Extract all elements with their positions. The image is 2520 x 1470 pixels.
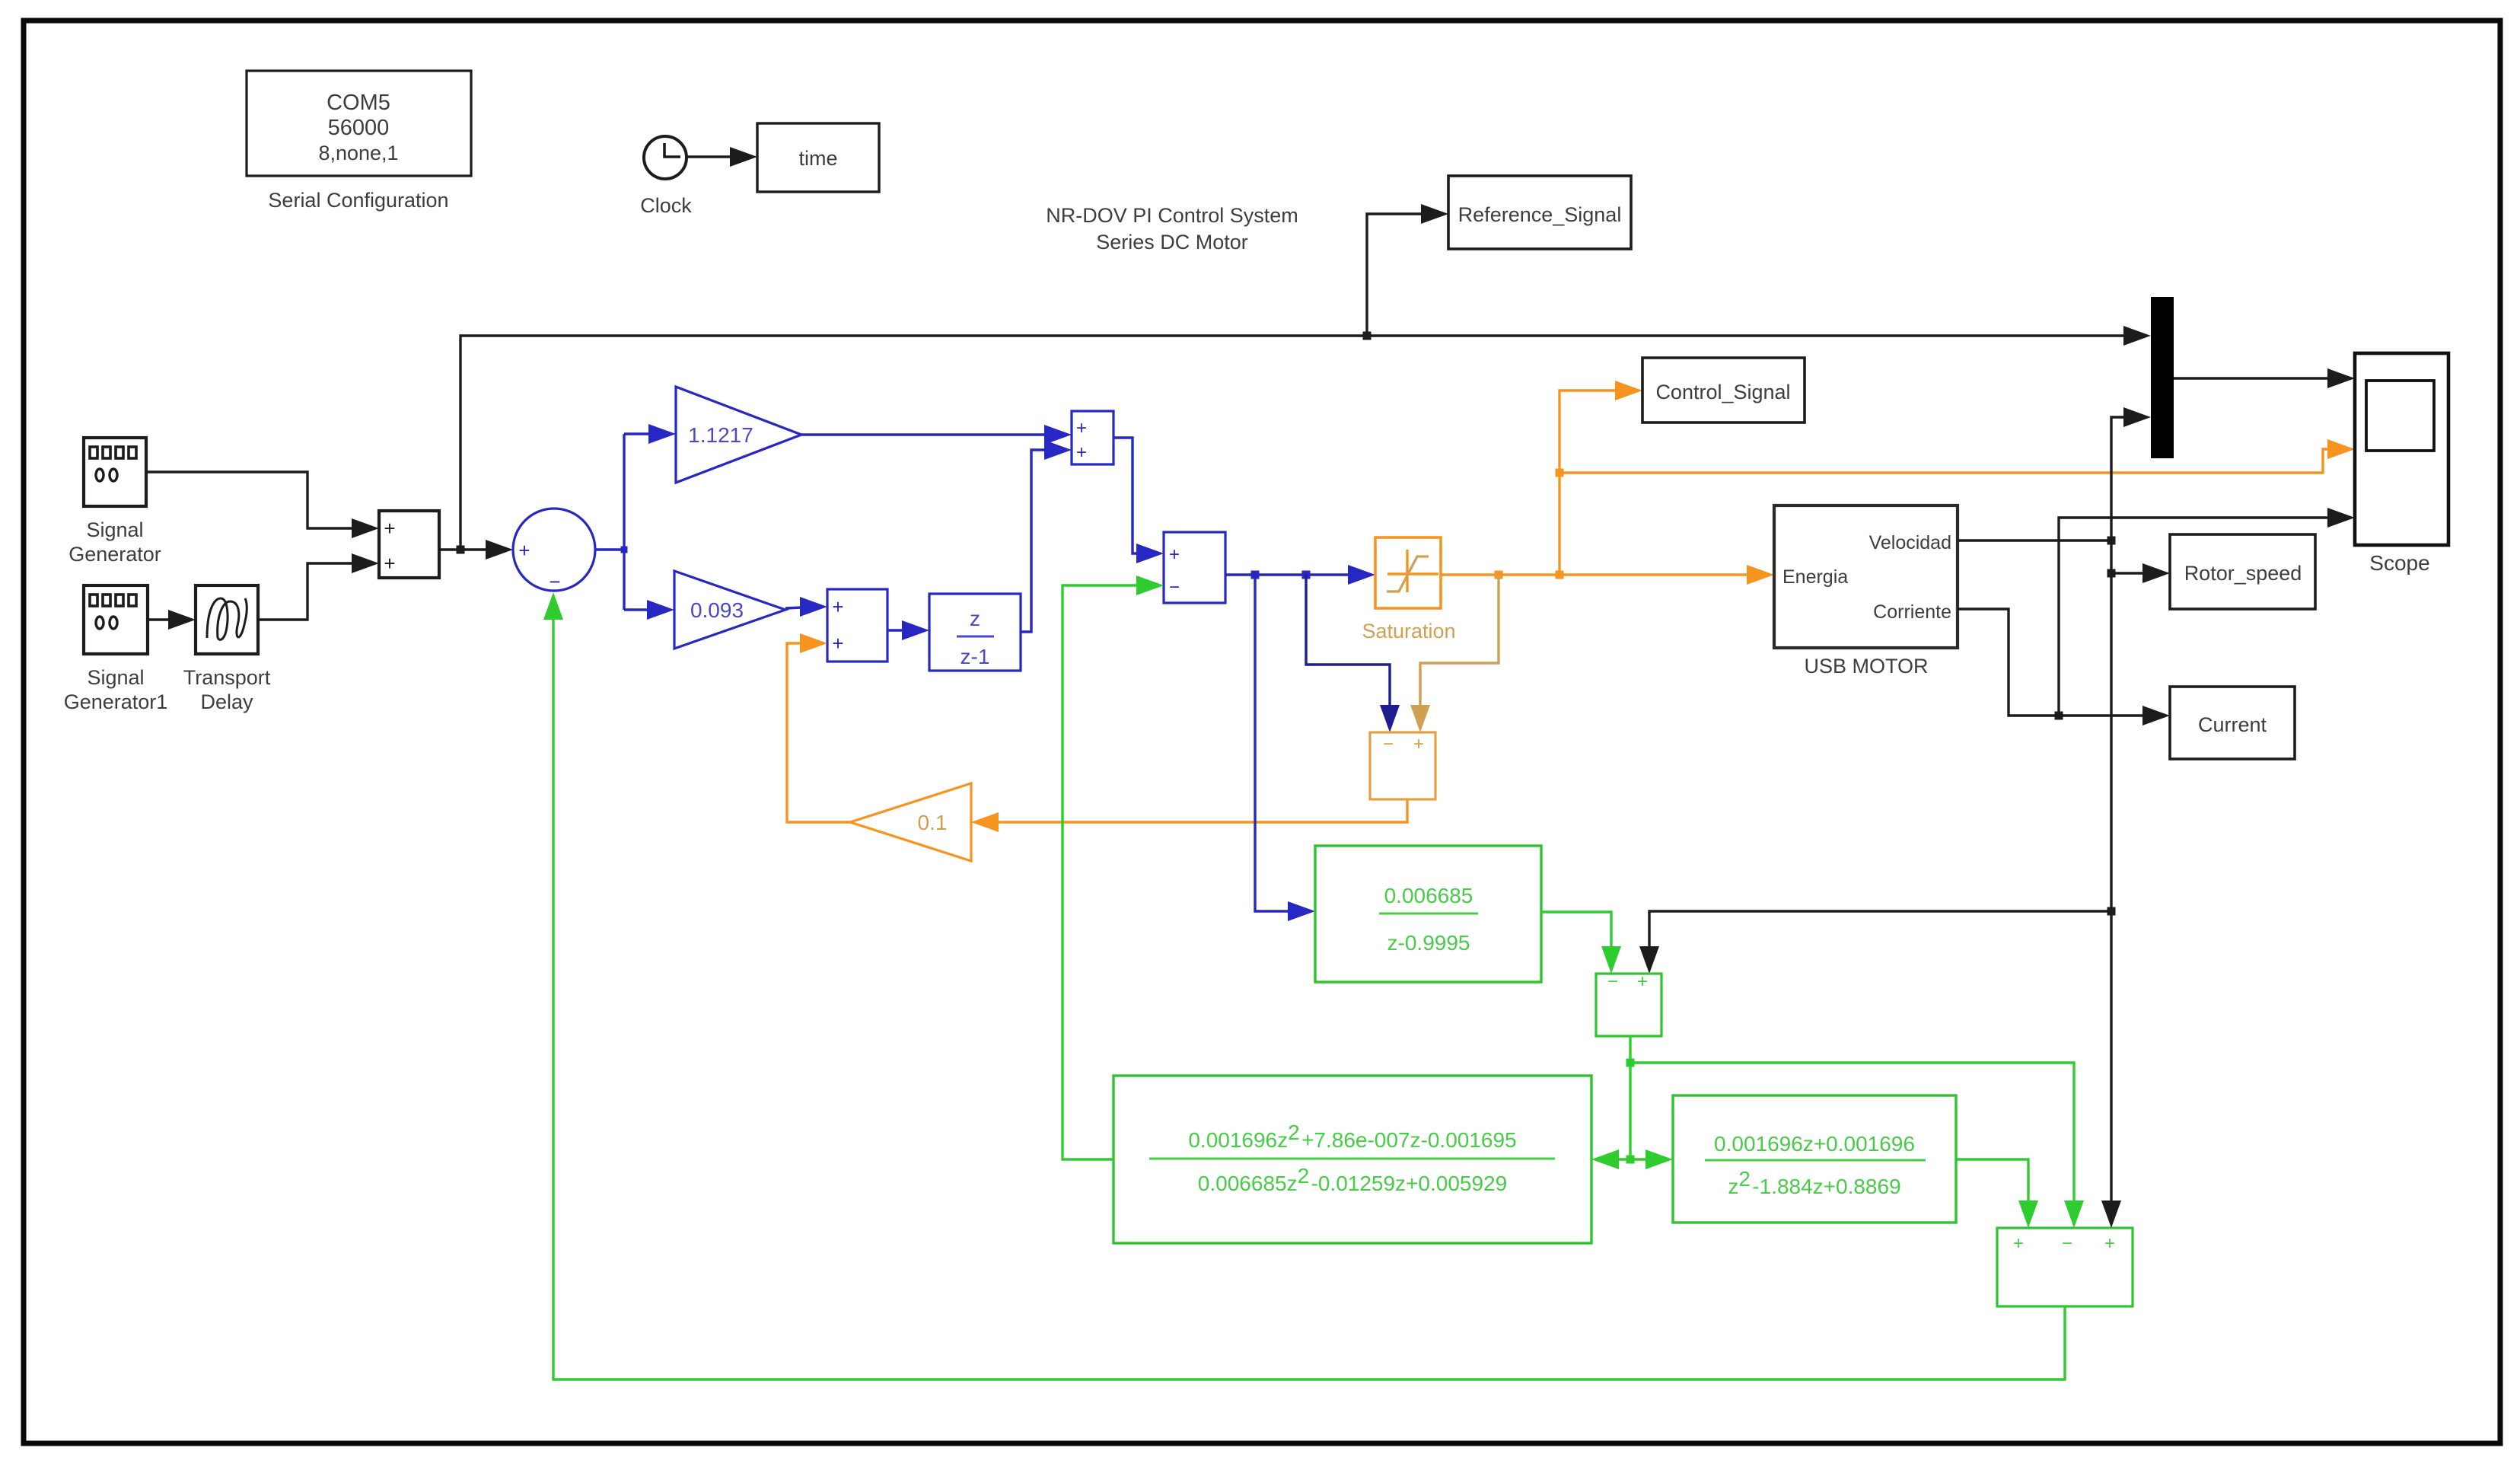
svg-text:Saturation: Saturation [1362, 620, 1455, 643]
wire bus vertical up to mux [2111, 407, 2151, 540]
svg-text:+: + [1076, 442, 1087, 463]
svg-text:Control_Signal: Control_Signal [1655, 381, 1790, 403]
svg-text:+: + [1169, 544, 1180, 565]
svg-text:z: z [970, 607, 980, 630]
wire mux to Scope input 1 [2174, 368, 2355, 388]
sum block S5 (+ -) [1164, 532, 1225, 603]
svg-text:Delay: Delay [200, 690, 253, 713]
svg-text:+: + [2104, 1233, 2115, 1254]
wire Clock to time [687, 147, 757, 167]
svg-text:Clock: Clock [640, 194, 692, 217]
block Signal Generator [68, 438, 161, 566]
sum block S1 (+ +) [379, 511, 439, 578]
wire S7 output to estimator blocks [1591, 1036, 2084, 1228]
sum block S7 (- +) [1596, 971, 1661, 1036]
sum block S8 (+ - +) [1997, 1228, 2133, 1306]
wire Signal Generator to sum [146, 472, 379, 538]
block Current goto [2170, 687, 2295, 759]
svg-text:−: − [1169, 577, 1180, 598]
svg-text:0.006685: 0.006685 [1384, 884, 1473, 907]
svg-text:+: + [1076, 418, 1087, 438]
block Rotor_speed goto [2170, 534, 2315, 609]
wire reference tap to Reference_Signal [1363, 204, 1449, 340]
svg-text:Signal: Signal [86, 518, 143, 541]
wire Signal Generator1 to Transport Delay [148, 610, 196, 630]
svg-text:Velocidad: Velocidad [1869, 532, 1951, 553]
wire reference signal main line to mux [460, 326, 2151, 550]
sum block S3 (+ +) [1072, 411, 1113, 464]
wire S6 to gain 0.1 [971, 799, 1407, 832]
svg-text:Energia: Energia [1782, 566, 1848, 588]
svg-text:Signal: Signal [87, 666, 144, 689]
svg-text:Series DC Motor: Series DC Motor [1096, 231, 1248, 254]
title text NR-DOV PI Control System [1046, 204, 1298, 254]
wire S5 output down to TF1 input [1255, 575, 1315, 921]
wire branch to Rotor_speed [2111, 563, 2170, 583]
wire S5 to Saturation with taps [1225, 565, 1375, 585]
svg-text:+: + [1637, 971, 1648, 992]
wire gain 1.1217 to sum S3 [801, 425, 1072, 445]
block Control_Signal goto [1642, 358, 1805, 423]
wire bus vertical down to S8 plus input [2101, 540, 2121, 1228]
svg-text:Current: Current [2198, 713, 2267, 736]
svg-text:+: + [384, 552, 395, 575]
wire TF2 output to S5 minus input [1062, 576, 1164, 1159]
wire velocidad feedback to S7 plus input [1639, 911, 2111, 974]
mux block [2151, 297, 2174, 458]
svg-text:−: − [549, 570, 560, 593]
sum circle S2 (+ -) [513, 509, 595, 593]
wire circle output split to gains [595, 424, 676, 620]
svg-text:+: + [1413, 734, 1424, 754]
svg-text:0.001696z+0.001696: 0.001696z+0.001696 [1714, 1132, 1915, 1156]
wire Saturation to Energia with taps [1441, 565, 1774, 585]
wire integrator to sum S3 [1021, 440, 1072, 632]
svg-text:NR-DOV PI Control System: NR-DOV PI Control System [1046, 204, 1298, 227]
svg-text:−: − [1607, 971, 1618, 992]
svg-text:Transport: Transport [183, 666, 271, 689]
svg-text:Generator: Generator [68, 543, 161, 566]
block TF1 0.006685/(z-0.9995) [1315, 846, 1541, 982]
block discrete integrator z/(z-1) [929, 594, 1021, 671]
block Scope [2355, 353, 2448, 575]
wire S8 output feedback to error circle [543, 592, 2065, 1379]
gain block 1.1217 [676, 387, 801, 483]
gain block 0.093 [674, 571, 785, 649]
svg-text:0.093: 0.093 [690, 598, 744, 622]
svg-text:Reference_Signal: Reference_Signal [1458, 203, 1622, 226]
block Serial Configuration [247, 71, 471, 212]
block Transport Delay [183, 585, 271, 713]
svg-text:time: time [798, 147, 837, 170]
wire gain 0.093 to sum S4 [785, 597, 827, 617]
svg-text:z-1: z-1 [961, 645, 990, 668]
block Reference_Signal goto [1448, 176, 1631, 249]
svg-text:1.1217: 1.1217 [688, 423, 753, 447]
wire control signal to Scope input 2 [1559, 439, 2355, 473]
gain block 0.1 (flipped) [850, 783, 971, 861]
wire TF1 to S7 minus input [1541, 912, 1621, 974]
block USB MOTOR subsystem [1774, 505, 1958, 678]
wire TF3 to S8 plus input [1956, 1159, 2038, 1228]
svg-text:+: + [832, 632, 843, 655]
svg-text:0.1: 0.1 [918, 811, 948, 834]
svg-text:Scope: Scope [2369, 551, 2429, 575]
block Signal Generator1 [64, 585, 168, 713]
wire S1 to error sum circle [439, 540, 513, 560]
block Clock [640, 136, 692, 217]
svg-text:8,none,1: 8,none,1 [318, 142, 398, 164]
svg-text:z-0.9995: z-0.9995 [1387, 931, 1470, 955]
sum block S6 (- +) [1370, 732, 1435, 799]
wire gain 0.1 to S4 plus input [787, 633, 850, 822]
block TF3 reference model [1673, 1095, 1956, 1223]
svg-text:+: + [832, 595, 843, 618]
block Saturation [1362, 537, 1455, 643]
svg-text:COM5: COM5 [327, 91, 390, 115]
wire control signal up to Control_Signal goto [1556, 381, 1643, 575]
svg-text:−: − [2062, 1233, 2072, 1254]
sum block S4 (+ +) [827, 589, 887, 662]
svg-text:Generator1: Generator1 [64, 690, 168, 713]
wire Saturation output down to S6 plus input [1410, 575, 1499, 732]
wire S4 to discrete integrator [887, 620, 929, 640]
wire Velocidad output to bus vertical [1958, 537, 2116, 545]
svg-text:Serial Configuration: Serial Configuration [268, 189, 448, 212]
svg-text:Rotor_speed: Rotor_speed [2184, 562, 2302, 585]
svg-text:USB MOTOR: USB MOTOR [1804, 655, 1928, 678]
block TF2 inverse model [1113, 1076, 1591, 1243]
svg-text:+: + [2013, 1233, 2024, 1254]
svg-text:56000: 56000 [328, 116, 390, 140]
svg-text:−: − [1383, 734, 1394, 754]
wire S3 to sum S5 [1113, 438, 1164, 563]
wire Corriente to Current block [1958, 609, 2170, 725]
svg-text:+: + [384, 517, 395, 540]
svg-text:Corriente: Corriente [1873, 601, 1951, 623]
block time display [757, 123, 879, 192]
wire Transport Delay to sum [258, 553, 379, 620]
wire S5 output down to S6 minus input [1306, 575, 1400, 732]
wire corriente branch to Scope input 3 [2059, 508, 2355, 716]
svg-text:+: + [518, 539, 530, 562]
